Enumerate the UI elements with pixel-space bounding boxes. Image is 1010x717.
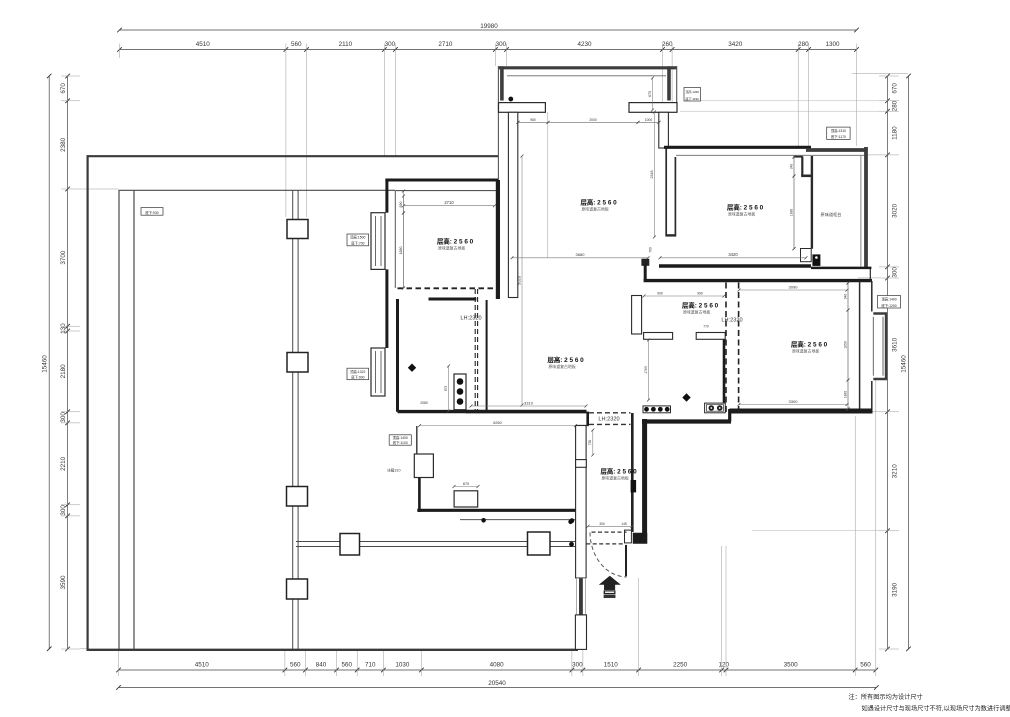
passage dashed LH b bbox=[589, 423, 631, 425]
svg-text:15460: 15460 bbox=[901, 355, 908, 373]
svg-text:原味道复古地板: 原味道复古地板 bbox=[438, 246, 465, 251]
svg-text:层高: 2 5 6 0: 层高: 2 5 6 0 bbox=[581, 198, 618, 207]
mr wall stub 2 bbox=[696, 333, 725, 340]
pergola beam horizontal b bbox=[296, 546, 576, 548]
svg-text:冰箱310: 冰箱310 bbox=[387, 468, 401, 473]
svg-text:670: 670 bbox=[648, 91, 652, 97]
mr removed wall dashed a bbox=[725, 283, 727, 415]
balcony outer right line bbox=[676, 66, 678, 103]
tr closet right connector bbox=[869, 268, 871, 281]
entry passage dashed 1 bbox=[592, 531, 627, 533]
svg-text:120: 120 bbox=[719, 662, 730, 669]
ceiling lamp diamond kitchen2 bbox=[682, 393, 690, 401]
svg-text:1850: 1850 bbox=[843, 341, 847, 349]
label box terrace bbox=[141, 208, 163, 216]
ceiling lamp diamond bath bbox=[408, 364, 416, 372]
living step wall bbox=[586, 412, 589, 426]
hall left wall band bbox=[576, 426, 587, 578]
svg-text:2080: 2080 bbox=[420, 401, 428, 405]
svg-text:3090: 3090 bbox=[789, 284, 799, 289]
svg-text:710: 710 bbox=[365, 662, 376, 669]
balcony left wall bbox=[500, 66, 504, 100]
tr closet bottom wall bbox=[811, 267, 871, 270]
mr right wall inner bbox=[859, 281, 861, 414]
hall wall bump bbox=[576, 460, 587, 468]
svg-text:层高: 2 5 6 0: 层高: 2 5 6 0 bbox=[791, 340, 828, 349]
svg-text:3420: 3420 bbox=[728, 252, 738, 257]
balcony window sill bbox=[507, 75, 666, 77]
mr top wall bbox=[644, 279, 872, 282]
svg-text:2210: 2210 bbox=[60, 456, 67, 471]
right window bay bbox=[873, 314, 886, 380]
svg-text:3020: 3020 bbox=[892, 203, 899, 218]
balcony top wall bbox=[498, 66, 677, 69]
svg-text:1880: 1880 bbox=[843, 391, 847, 399]
svg-text:1880: 1880 bbox=[789, 209, 793, 217]
tr right window sill bbox=[860, 156, 862, 267]
svg-text:1510: 1510 bbox=[604, 662, 619, 669]
svg-text:4230: 4230 bbox=[577, 41, 592, 48]
svg-text:750: 750 bbox=[588, 440, 592, 446]
svg-text:670: 670 bbox=[463, 482, 469, 486]
svg-text:1780: 1780 bbox=[644, 366, 648, 374]
svg-text:560: 560 bbox=[290, 662, 301, 669]
svg-text:4510: 4510 bbox=[195, 662, 210, 669]
svg-text:3590: 3590 bbox=[60, 575, 67, 590]
svg-text:3500: 3500 bbox=[784, 662, 799, 669]
svg-text:19980: 19980 bbox=[480, 23, 498, 30]
hall right wall upper bbox=[631, 413, 634, 532]
svg-text:底下:900: 底下:900 bbox=[351, 375, 364, 380]
mr left wall band bbox=[632, 296, 642, 335]
dining inner wall line bbox=[394, 191, 396, 288]
column 5 bbox=[340, 534, 360, 556]
bath left wall bbox=[396, 299, 399, 412]
gas stove bbox=[705, 403, 726, 413]
svg-text:层高: 2 5 6 0: 层高: 2 5 6 0 bbox=[548, 355, 585, 364]
mr wall stub 1 bbox=[644, 333, 673, 340]
overall right dimension 15460 bbox=[908, 76, 910, 649]
svg-text:原味道复古地板: 原味道复古地板 bbox=[549, 364, 576, 369]
pergola beam horizontal a bbox=[296, 541, 576, 543]
svg-text:300: 300 bbox=[572, 662, 583, 669]
svg-text:1180: 1180 bbox=[892, 126, 899, 140]
kitchen left wall bbox=[418, 478, 421, 513]
below-entry wall band bbox=[575, 615, 586, 650]
door nib bbox=[642, 259, 649, 266]
door hinge dot h1 bbox=[570, 518, 575, 523]
tr-mr connector wall bbox=[644, 265, 647, 282]
svg-text:340: 340 bbox=[789, 164, 793, 170]
tr-room top window wall bbox=[806, 148, 868, 152]
hall right wall outer bbox=[642, 419, 647, 544]
svg-text:873: 873 bbox=[444, 386, 448, 392]
svg-text:注：所有图示均为设计尺寸: 注：所有图示均为设计尺寸 bbox=[849, 693, 923, 701]
svg-text:顶高:1310: 顶高:1310 bbox=[831, 128, 846, 133]
terrace inner edge left b bbox=[133, 190, 135, 649]
balcony outer left line bbox=[497, 66, 499, 181]
bedroom divider band right bbox=[674, 157, 676, 235]
svg-text:760: 760 bbox=[649, 247, 653, 253]
svg-text:15460: 15460 bbox=[42, 355, 49, 373]
svg-text:底下:1190: 底下:1190 bbox=[686, 96, 700, 101]
door hinge dot balcony bbox=[508, 97, 513, 102]
svg-text:560: 560 bbox=[860, 662, 871, 669]
column 1 bbox=[287, 220, 308, 239]
svg-text:层高: 2 5 6 0: 层高: 2 5 6 0 bbox=[601, 467, 638, 476]
mr bottom wall bbox=[730, 409, 873, 414]
tr-room top wall bbox=[664, 146, 811, 149]
svg-text:2380: 2380 bbox=[60, 137, 67, 152]
svg-text:底下:1200: 底下:1200 bbox=[881, 303, 896, 308]
svg-text:300: 300 bbox=[496, 41, 507, 48]
fridge box bbox=[414, 454, 433, 478]
svg-text:770: 770 bbox=[703, 325, 709, 329]
below-entry glass frame bbox=[577, 578, 586, 615]
balcony right wall bbox=[667, 66, 671, 100]
left window bay 2 bbox=[371, 348, 385, 396]
below-entry glass bar bbox=[579, 578, 582, 614]
svg-text:130: 130 bbox=[60, 323, 67, 334]
svg-text:890: 890 bbox=[399, 202, 403, 208]
svg-text:6260: 6260 bbox=[493, 421, 501, 425]
overall top dimension 19980 bbox=[120, 29, 857, 31]
kitchen left wall upper bbox=[416, 426, 418, 454]
entrance arrow bbox=[599, 576, 621, 585]
svg-text:300: 300 bbox=[60, 412, 67, 423]
svg-text:原味道复古地板: 原味道复古地板 bbox=[602, 476, 629, 481]
mr step wall bbox=[728, 409, 731, 422]
fridge symbol bbox=[813, 255, 820, 266]
dining right wall bbox=[496, 180, 500, 299]
svg-text:2348: 2348 bbox=[650, 171, 654, 179]
svg-text:顶高:1500: 顶高:1500 bbox=[350, 235, 365, 240]
svg-text:如遇设计尺寸与现场尺寸不符,以现场尺寸为数进行调整。: 如遇设计尺寸与现场尺寸不符,以现场尺寸为数进行调整。 bbox=[862, 704, 1010, 712]
kitchen counter box bbox=[454, 491, 478, 507]
svg-text:顶高:1260: 顶高:1260 bbox=[685, 89, 699, 94]
label box top-right bbox=[827, 127, 850, 139]
hall corner block bbox=[633, 533, 647, 544]
hall black mark bbox=[631, 480, 636, 492]
svg-text:底下:1100: 底下:1100 bbox=[393, 440, 408, 445]
column 4 bbox=[287, 579, 308, 599]
svg-text:3310: 3310 bbox=[524, 400, 534, 405]
svg-text:1300: 1300 bbox=[825, 41, 840, 48]
bath right wall bbox=[486, 300, 488, 410]
svg-text:300: 300 bbox=[60, 505, 67, 516]
door hinge dot h2 bbox=[569, 542, 574, 547]
svg-text:1000: 1000 bbox=[645, 118, 653, 122]
svg-text:顶高:1322: 顶高:1322 bbox=[350, 369, 365, 374]
entry door leaf bbox=[625, 545, 627, 576]
kitchen bottom wall bbox=[417, 509, 576, 512]
witness lines bbox=[119, 44, 121, 59]
mr removed wall dashed b bbox=[738, 283, 740, 415]
svg-text:底下:1170: 底下:1170 bbox=[831, 134, 846, 139]
bedroom divider band cap bbox=[665, 234, 676, 236]
passage dashed LH a bbox=[589, 412, 631, 414]
terrace inner edge top bbox=[119, 189, 395, 191]
svg-text:300: 300 bbox=[385, 41, 396, 48]
column 6 bbox=[528, 532, 551, 555]
left window bay 1 bbox=[371, 213, 385, 270]
svg-text:3210: 3210 bbox=[892, 464, 899, 479]
svg-text:2250: 2250 bbox=[673, 662, 688, 669]
bedroom left wall band bbox=[508, 112, 517, 297]
interior dimension lines bbox=[404, 205, 495, 207]
svg-text:560: 560 bbox=[291, 41, 302, 48]
terrace inner edge left a bbox=[118, 190, 120, 649]
top dimension chain bbox=[120, 49, 857, 51]
svg-text:原味道复古地板: 原味道复古地板 bbox=[683, 310, 710, 315]
closet hook horizontal bbox=[794, 156, 803, 158]
pergola beam line a bbox=[292, 190, 294, 649]
dining ceiling line bbox=[395, 190, 497, 192]
svg-text:顶高:1400: 顶高:1400 bbox=[881, 297, 896, 302]
label box right-bay bbox=[878, 296, 901, 309]
mr right wall outer upper bbox=[871, 281, 873, 312]
dining top wall bbox=[385, 179, 498, 182]
svg-text:3300: 3300 bbox=[789, 399, 799, 404]
kitchen2 bottom wall bbox=[642, 419, 731, 423]
dining removed wall dashed bbox=[398, 287, 498, 289]
mr inner wall bbox=[723, 339, 726, 403]
column 3 bbox=[287, 487, 308, 507]
terrace left wall bbox=[86, 155, 88, 651]
label box bay1 bbox=[347, 234, 369, 246]
water heater stack bbox=[454, 374, 466, 410]
removed wall dashed pair a bbox=[474, 289, 476, 411]
washer row bbox=[643, 406, 671, 413]
column 2 bbox=[287, 353, 308, 373]
bedroom shoulder wall right bbox=[629, 103, 677, 113]
bedroom right wall band bbox=[659, 112, 669, 148]
svg-text:LH:2320: LH:2320 bbox=[721, 318, 742, 324]
tr-room bottom wall bbox=[659, 264, 811, 267]
svg-text:900: 900 bbox=[657, 292, 663, 296]
svg-text:原味道柜台: 原味道柜台 bbox=[821, 211, 842, 218]
svg-text:底下:700: 底下:700 bbox=[351, 241, 364, 246]
tr-room right wall bbox=[864, 147, 868, 267]
svg-text:980: 980 bbox=[530, 118, 536, 122]
svg-text:260: 260 bbox=[662, 41, 673, 48]
svg-text:顶高:1400: 顶高:1400 bbox=[393, 435, 408, 440]
kitchen counter line bbox=[460, 519, 576, 521]
svg-text:940: 940 bbox=[843, 294, 847, 300]
svg-text:2110: 2110 bbox=[339, 41, 353, 48]
removed wall dashed pair b bbox=[477, 289, 479, 411]
svg-text:670: 670 bbox=[60, 83, 67, 94]
svg-text:原味道复古地板: 原味道复古地板 bbox=[728, 212, 755, 217]
svg-text:层高: 2 5 6 0: 层高: 2 5 6 0 bbox=[727, 203, 764, 212]
svg-text:145: 145 bbox=[621, 522, 627, 526]
svg-text:20540: 20540 bbox=[488, 680, 506, 687]
closet long wall bbox=[811, 156, 813, 249]
bottom dimension chain bbox=[119, 669, 876, 671]
svg-text:2710: 2710 bbox=[438, 41, 453, 48]
svg-text:280: 280 bbox=[798, 41, 809, 48]
svg-text:1030: 1030 bbox=[395, 662, 410, 669]
pergola beam line b bbox=[297, 190, 299, 649]
bedroom shoulder wall left bbox=[499, 103, 546, 113]
terrace bottom wall bbox=[87, 649, 579, 651]
svg-text:LH:2320: LH:2320 bbox=[460, 316, 481, 322]
svg-text:LH:2320: LH:2320 bbox=[598, 417, 619, 423]
right dimension chain bbox=[887, 76, 889, 649]
svg-text:840: 840 bbox=[316, 662, 327, 669]
closet hook vertical bbox=[801, 157, 803, 177]
closet end box bbox=[801, 249, 812, 262]
door hinge dot k2 bbox=[568, 520, 573, 525]
overall left dimension 15460 bbox=[48, 76, 50, 649]
svg-text:3680: 3680 bbox=[576, 252, 586, 257]
dining left wall upper bbox=[385, 179, 388, 213]
living wall step horizontal bbox=[576, 425, 590, 427]
label box bay2 bbox=[347, 368, 369, 380]
svg-text:670: 670 bbox=[892, 83, 899, 94]
overall bottom dimension 20540 bbox=[119, 687, 877, 689]
label box kitchen bbox=[389, 435, 411, 445]
tr-room window sill bbox=[676, 154, 865, 156]
svg-text:560: 560 bbox=[342, 662, 353, 669]
svg-text:原味道复古地板: 原味道复古地板 bbox=[792, 349, 819, 354]
closet step horizontal bbox=[801, 175, 813, 178]
left dimension chain bbox=[67, 76, 69, 649]
living bottom wall bbox=[466, 410, 587, 414]
svg-text:层高: 2 5 6 0: 层高: 2 5 6 0 bbox=[682, 301, 719, 310]
svg-text:层高: 2 5 6 0: 层高: 2 5 6 0 bbox=[437, 237, 474, 246]
svg-text:2000: 2000 bbox=[589, 118, 597, 122]
svg-text:4510: 4510 bbox=[196, 41, 211, 48]
mr right wall outer lower bbox=[871, 381, 873, 414]
svg-text:底下:930: 底下:930 bbox=[145, 210, 158, 215]
svg-text:300: 300 bbox=[892, 267, 899, 278]
svg-text:3610: 3610 bbox=[892, 337, 899, 352]
svg-text:3190: 3190 bbox=[892, 582, 899, 597]
svg-text:3420: 3420 bbox=[728, 41, 743, 48]
label box balcony bbox=[684, 88, 701, 102]
entry door swing arc bbox=[590, 533, 627, 578]
svg-text:3700: 3700 bbox=[60, 250, 67, 265]
svg-text:5020: 5020 bbox=[516, 275, 521, 285]
entry door jamb bbox=[625, 530, 632, 543]
svg-text:2180: 2180 bbox=[60, 364, 67, 379]
terrace top wall bbox=[87, 155, 499, 157]
svg-text:2710: 2710 bbox=[444, 200, 454, 205]
entry passage dashed 2 bbox=[586, 543, 624, 545]
svg-text:300: 300 bbox=[599, 522, 605, 526]
dining left wall lower bbox=[385, 269, 388, 348]
svg-text:4080: 4080 bbox=[490, 662, 505, 669]
door hinge dot k1 bbox=[481, 518, 486, 523]
svg-text:原味道复古地板: 原味道复古地板 bbox=[582, 207, 609, 212]
svg-text:990: 990 bbox=[697, 292, 703, 296]
bedroom divider band left bbox=[665, 148, 667, 236]
bath bottom wall bbox=[398, 410, 468, 413]
bath top wall bbox=[429, 298, 477, 301]
svg-text:280: 280 bbox=[892, 100, 899, 111]
svg-text:1880: 1880 bbox=[399, 247, 403, 255]
